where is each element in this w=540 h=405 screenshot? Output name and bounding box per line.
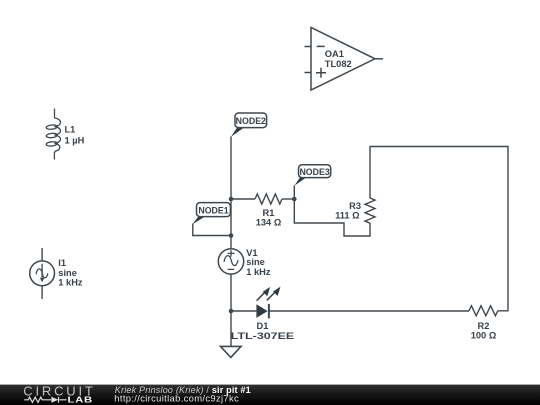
svg-text:1 µH: 1 µH	[65, 135, 85, 145]
svg-text:sine: sine	[58, 268, 77, 278]
svg-text:LAB: LAB	[68, 396, 93, 405]
svg-text:LTL-307EE: LTL-307EE	[231, 331, 295, 341]
svg-text:R1: R1	[263, 208, 275, 218]
svg-text:I1: I1	[58, 258, 66, 268]
svg-text:sine: sine	[246, 257, 265, 267]
svg-text:D1: D1	[257, 321, 269, 331]
svg-text:L1: L1	[65, 125, 76, 135]
svg-text:134 Ω: 134 Ω	[256, 218, 282, 228]
svg-text:NODE2: NODE2	[236, 116, 266, 126]
svg-text:1 kHz: 1 kHz	[58, 278, 83, 288]
svg-text:OA1: OA1	[325, 49, 344, 59]
svg-text:R2: R2	[478, 321, 490, 331]
svg-text:1 kHz: 1 kHz	[246, 267, 271, 277]
svg-text:111 Ω: 111 Ω	[335, 211, 360, 221]
svg-text:http://circuitlab.com/c9zj7kc: http://circuitlab.com/c9zj7kc	[114, 393, 239, 404]
svg-text:R3: R3	[349, 201, 361, 211]
svg-text:NODE1: NODE1	[198, 205, 228, 215]
svg-text:TL082: TL082	[325, 59, 352, 69]
svg-text:100 Ω: 100 Ω	[471, 331, 497, 341]
svg-text:NODE3: NODE3	[299, 167, 329, 177]
